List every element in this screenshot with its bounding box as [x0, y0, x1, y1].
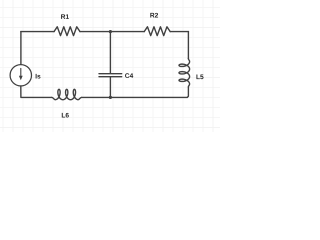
label L6 — [62, 113, 69, 118]
capacitor C4 top lead — [109, 32, 111, 73]
label L5 — [196, 75, 203, 80]
capacitor C4 top plate — [99, 73, 122, 75]
grid major — [0, 0, 220, 132]
grid minor — [0, 0, 220, 132]
wire below source — [21, 86, 52, 97]
label R1 — [61, 14, 69, 19]
capacitor C4 bottom plate — [99, 76, 122, 78]
wire top-middle — [80, 31, 144, 33]
wire left side — [20, 32, 22, 65]
junction node bottom — [109, 96, 112, 99]
inductor L5 — [179, 59, 190, 87]
label R2 — [150, 13, 158, 18]
current source Is circle — [10, 65, 31, 86]
inductor L6 — [52, 89, 82, 99]
label Is — [36, 74, 41, 79]
wire right side bottom — [187, 87, 188, 97]
current source arrowhead — [19, 76, 23, 81]
resistor R1 — [54, 27, 80, 36]
label C4 — [125, 73, 133, 78]
junction node top — [109, 30, 112, 33]
wire top-left — [21, 31, 54, 33]
capacitor C4 bottom lead — [109, 77, 111, 97]
wire bottom-middle — [82, 96, 188, 98]
wire top-right — [170, 31, 188, 33]
wire right side top — [187, 32, 189, 59]
current source arrow shaft — [20, 68, 22, 76]
resistor R2 — [144, 27, 170, 36]
